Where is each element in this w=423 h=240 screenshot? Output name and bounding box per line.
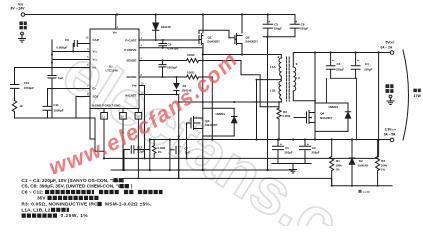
svg-text:1000pF: 1000pF (53, 109, 64, 113)
svg-text:+: + (295, 20, 297, 24)
svg-text:N-GATE: N-GATE (125, 93, 136, 97)
svg-text:220μF: 220μF (300, 27, 308, 31)
svg-text:L1B: L1B (270, 89, 277, 93)
svg-text:13: 13 (141, 90, 145, 94)
svg-text:L1A, L1B, L2: L1A, L1B, L2 (21, 207, 50, 213)
svg-text:100Ω: 100Ω (187, 53, 195, 57)
svg-text:SD1: SD1 (93, 95, 99, 99)
svg-text:9: 9 (141, 56, 143, 60)
svg-text:VIN: VIN (113, 30, 118, 34)
svg-text:2: 2 (117, 25, 119, 29)
svg-text:L1A: L1A (270, 65, 277, 69)
svg-text:220μF: 220μF (312, 151, 320, 155)
svg-text:SENSE: SENSE (126, 75, 136, 79)
svg-text:+: + (268, 20, 270, 24)
svg-text:Si9410DY: Si9410DY (205, 123, 218, 127)
svg-text:C11: C11 (53, 103, 59, 107)
svg-text:Si9430DY: Si9430DY (245, 39, 258, 43)
svg-text:1N4148: 1N4148 (161, 25, 171, 29)
svg-text:1N5819: 1N5819 (215, 112, 225, 116)
svg-text:C10: C10 (24, 81, 30, 85)
svg-text:Si9430DY: Si9430DY (207, 39, 220, 43)
svg-text:100Ω: 100Ω (187, 71, 195, 75)
svg-text:0.25W, 1%: 0.25W, 1% (61, 213, 89, 219)
svg-text:C6 ~ C12:: C6 ~ C12: (21, 190, 43, 196)
svg-text:C3: C3 (337, 62, 341, 66)
svg-text:10: 10 (141, 81, 145, 85)
svg-text:1: 1 (141, 36, 143, 40)
svg-text:35V: 35V (37, 196, 46, 202)
svg-text:0.047μF: 0.047μF (168, 47, 179, 51)
svg-text:0A ~ 2A: 0A ~ 2A (381, 45, 393, 49)
svg-text:SENSE: SENSE (126, 58, 136, 62)
svg-text:8V ~ 24V: 8V ~ 24V (11, 7, 26, 11)
svg-text:+: + (332, 59, 334, 63)
svg-text:C2: C2 (312, 146, 316, 150)
svg-text:3.3VOUT: 3.3VOUT (385, 128, 397, 132)
svg-text:220μF: 220μF (274, 27, 282, 31)
svg-text:+: + (357, 59, 359, 63)
svg-text:17W: 17W (414, 94, 422, 98)
svg-text:P-DRIVE: P-DRIVE (124, 48, 136, 52)
svg-text:14: 14 (121, 115, 125, 119)
svg-text:1%: 1% (158, 150, 163, 154)
svg-text:0.068μF: 0.068μF (56, 45, 67, 49)
svg-text:1μF: 1μF (185, 151, 190, 155)
svg-text:CAP: CAP (93, 38, 99, 42)
svg-text:P-GATE: P-GATE (125, 38, 136, 42)
svg-text:14-58: 14-58 (362, 190, 370, 194)
svg-text:1μF: 1μF (58, 76, 64, 80)
svg-text:220μF: 220μF (364, 67, 372, 71)
svg-text:C1: C1 (285, 146, 289, 150)
svg-text:LTC1149: LTC1149 (106, 69, 118, 73)
svg-text:L2: L2 (296, 76, 300, 80)
svg-text:C5, C8: 390μF, 35V, (UNITED CH: C5, C8: 390μF, 35V, (UNITED CHEM-CON, "L… (21, 184, 132, 190)
svg-text:1%: 1% (381, 168, 386, 172)
svg-text:C4: C4 (365, 62, 369, 66)
svg-text:0A ~ 5A: 0A ~ 5A (384, 133, 396, 137)
svg-text:4700pF: 4700pF (24, 86, 35, 90)
svg-text:1000pF: 1000pF (167, 66, 178, 70)
svg-text:R3: 0.05Ω, NONINDUCTIVE IRC: R3: 0.05Ω, NONINDUCTIVE IRC (21, 202, 98, 208)
svg-text:+: + (180, 145, 182, 149)
svg-text:1N5819: 1N5819 (328, 105, 338, 109)
svg-text:220μF: 220μF (285, 151, 293, 155)
svg-text:+: + (307, 143, 309, 147)
svg-text:1%: 1% (336, 168, 341, 172)
svg-text:Si9410DY: Si9410DY (320, 116, 333, 120)
svg-text:220μF: 220μF (336, 67, 344, 71)
svg-text:C6: C6 (65, 38, 69, 42)
svg-text:5VOUT: 5VOUT (386, 41, 396, 45)
svg-text:18: 18 (85, 35, 89, 39)
svg-text:1k: 1k (19, 104, 23, 108)
svg-text:0.05Ω: 0.05Ω (283, 114, 291, 118)
svg-text:4: 4 (141, 44, 143, 48)
svg-text:3.3μF: 3.3μF (137, 150, 145, 154)
svg-text:11: 11 (102, 115, 105, 119)
svg-text:MSM-1-0.02Ω ±5%.: MSM-1-0.02Ω ±5%. (105, 202, 151, 208)
svg-text:1N4148: 1N4148 (358, 163, 368, 167)
svg-text:+: + (280, 143, 282, 147)
svg-text:C1 ~ C4: 220μF, 10V (SANYO OS-: C1 ~ C4: 220μF, 10V (SANYO OS-CON, "SA" … (21, 178, 124, 184)
svg-text:S-GND P-GND 7-GND: S-GND P-GND 7-GND (92, 103, 120, 107)
